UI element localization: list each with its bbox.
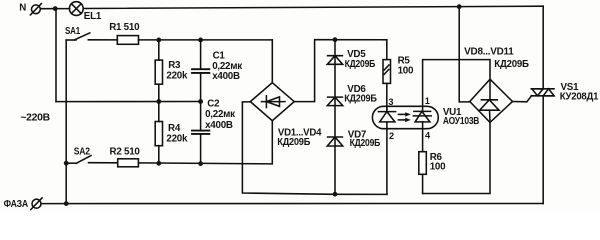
svg-text:3: 3 (388, 97, 393, 107)
lamp EL1 (69, 2, 83, 16)
svg-text:КД209Б: КД209Б (494, 59, 529, 70)
bridge VD8...VD11 (470, 79, 513, 122)
node VD7 chain bottom (333, 192, 338, 197)
wire top rail (83, 6, 543, 8)
svg-text:EL1: EL1 (84, 11, 102, 22)
svg-text:АОУ103В: АОУ103В (443, 116, 479, 127)
wire triac anode (542, 6, 544, 89)
node C1 top (198, 38, 203, 43)
svg-text:x400В: x400В (205, 120, 233, 131)
wire bridge1 left corner down to common rail (242, 102, 387, 194)
node R3-R4 mid (156, 99, 161, 104)
svg-text:~220В: ~220В (20, 112, 50, 123)
pin 1 wire (423, 60, 490, 112)
terminal N (30, 4, 41, 15)
photothyristor of U1 (413, 111, 431, 122)
capacitor C2 (192, 102, 209, 164)
node VD5 chain top (333, 37, 338, 42)
svg-text:ФАЗА: ФАЗА (4, 199, 29, 210)
svg-text:КУ208Д1: КУ208Д1 (560, 92, 599, 103)
svg-text:SA1: SA1 (65, 26, 81, 37)
svg-text:C1: C1 (213, 51, 226, 62)
svg-text:КД209Б: КД209Б (350, 138, 381, 149)
svg-text:1: 1 (425, 96, 430, 106)
resistor R6 (419, 152, 427, 194)
svg-text:2: 2 (389, 131, 394, 141)
svg-text:x400В: x400В (212, 71, 240, 82)
svg-text:220k: 220k (166, 70, 188, 81)
node R3 top (156, 38, 161, 43)
svg-text:КД209Б: КД209Б (345, 59, 376, 70)
optocoupler U1 body (372, 106, 438, 128)
diode VD6 (327, 97, 342, 106)
resistor R5 (383, 40, 391, 112)
wire R2 rail to bridge1 bottom (138, 121, 272, 164)
LED of U1 (378, 112, 395, 122)
pin 4 wire (422, 122, 424, 152)
svg-text:R1 510: R1 510 (109, 22, 140, 33)
wire SA1-SA2 vertical (65, 40, 67, 204)
wire R1 to rail (139, 39, 273, 41)
node SA2 tap (64, 161, 69, 166)
svg-text:SA2: SA2 (74, 147, 91, 158)
node R4 bottom (156, 161, 161, 166)
bridge VD1...VD4 (250, 83, 294, 121)
pin 2 wire (386, 122, 388, 194)
wire bridge2 right to triac gate (513, 96, 532, 102)
wire bottom rail (41, 203, 543, 205)
wire rail to bridge1 top (271, 40, 273, 83)
wire SA1 to R1 (88, 39, 117, 41)
node C1-C2 mid (198, 99, 203, 104)
resistor R4 (155, 102, 162, 164)
node C2 bottom (198, 161, 203, 166)
wire SA2 to R2 (89, 162, 118, 164)
svg-text:100: 100 (430, 162, 446, 173)
resistor R3 (155, 40, 162, 102)
wire N rail y=101.5 (56, 101, 201, 103)
svg-text:VD8...VD11: VD8...VD11 (464, 47, 514, 58)
wire triac cathode (542, 96, 544, 204)
pin 3 wire (386, 106, 388, 111)
svg-text:C2: C2 (207, 99, 220, 110)
svg-text:100: 100 (398, 66, 414, 77)
svg-text:N: N (19, 2, 26, 13)
wire R6 to bridge2 bottom (423, 122, 490, 193)
wire N down (55, 9, 57, 102)
svg-text:R2 510: R2 510 (110, 147, 141, 158)
diode VD7 (327, 137, 342, 146)
svg-text:КД209Б: КД209Б (344, 93, 377, 104)
wire VD5-VD7 chain (334, 40, 336, 195)
wire terminal N to lamp (40, 8, 69, 10)
svg-text:220k: 220k (166, 133, 188, 144)
svg-text:КД209Б: КД209Б (277, 137, 310, 148)
svg-text:0,22мк: 0,22мк (205, 109, 235, 120)
wire top rail to bridge2 left (459, 7, 470, 102)
terminal FAZA (31, 198, 42, 210)
node N junction (53, 6, 58, 11)
switch SA2 (66, 156, 91, 164)
node top rail / bridge2 tap (457, 4, 462, 9)
diode VD5 (327, 56, 342, 65)
resistor R2 (118, 159, 139, 167)
resistor R1 (117, 36, 138, 45)
node FAZA junction (64, 201, 69, 206)
wire bridge1 right corner to dc plus rail (294, 40, 387, 102)
triac VS1 (531, 89, 554, 96)
capacitor C1 (192, 40, 209, 102)
switch SA1 (66, 33, 90, 40)
light arrows (398, 112, 410, 122)
